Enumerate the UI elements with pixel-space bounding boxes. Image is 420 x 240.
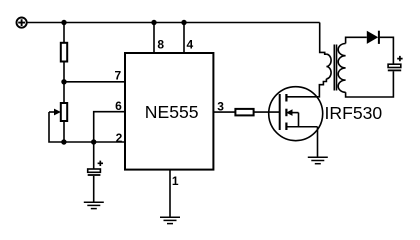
wire pin 4: [183, 23, 185, 54]
op-amp-box IC U1 NE555: [125, 53, 213, 170]
wire source to ground: [317, 127, 319, 157]
node junction on rail at pin 4: [181, 20, 186, 25]
svg-text:6: 6: [115, 99, 122, 113]
wire pin 7: [64, 81, 125, 83]
svg-text:8: 8: [157, 38, 164, 52]
diode D1: [367, 31, 379, 44]
node junction C1 / pin6 branch: [91, 139, 96, 144]
wire bulk to source: [298, 113, 300, 127]
potentiometer P1 body: [61, 103, 67, 121]
transistor Q1 gate bar: [279, 94, 281, 130]
wire wiper to bottom net: [49, 112, 64, 142]
ground (C1): [84, 202, 104, 208]
svg-text:7: 7: [115, 69, 122, 83]
ground (source): [308, 157, 328, 163]
wire bottom net to pin 2: [64, 141, 125, 143]
wire R1 bottom to pin7 node: [63, 62, 65, 82]
wire C2 to secondary bottom: [346, 71, 394, 97]
wire R2 to gate: [254, 111, 280, 113]
resistor R1: [61, 43, 67, 62]
ground (pin 1): [160, 217, 180, 223]
wire rail down to transformer primary: [320, 23, 327, 55]
svg-text:NE555: NE555: [145, 102, 199, 122]
capacitor C1 (polarized): [88, 161, 103, 175]
wire pin 6 branch: [94, 112, 125, 142]
transistor Q1 bulk arrow: [286, 109, 298, 116]
wire C1 top: [93, 142, 95, 169]
wire rail to R1 top: [63, 23, 65, 43]
transistor Q1 channel ticks: [285, 94, 287, 130]
transformer T1 primary winding: [326, 54, 331, 79]
wire pot bottom: [63, 121, 65, 142]
wire diode to C2: [379, 37, 394, 64]
transistor Q1 drain line: [286, 96, 318, 98]
wire top rail: [27, 22, 320, 24]
capacitor C2 (polarized): [388, 56, 403, 71]
wire secondary top to diode: [346, 37, 367, 43]
node junction on rail at pin 8: [151, 20, 156, 25]
transistor Q1 MOSFET body circle: [269, 87, 323, 141]
node junction on rail above R1: [61, 20, 66, 25]
wire pin 8: [153, 23, 155, 54]
wire C1 to ground: [93, 176, 95, 202]
wire pot top: [63, 82, 65, 103]
svg-text:1: 1: [172, 174, 179, 188]
potentiometer P1 wiper arrow: [49, 109, 61, 116]
transistor Q1 source line: [286, 126, 317, 128]
transformer T1 secondary winding: [338, 44, 345, 93]
terminal + (supply positive): [17, 18, 27, 28]
node junction pin7/pot: [61, 79, 66, 84]
resistor R2 (gate): [235, 109, 253, 116]
svg-text:2: 2: [116, 131, 123, 145]
transformer T1 core: [334, 45, 336, 91]
wire primary bottom to drain (staircase): [319, 79, 327, 97]
node junction pot bottom: [61, 139, 66, 144]
wire pin 1 to ground: [169, 170, 171, 217]
svg-text:4: 4: [187, 38, 194, 52]
svg-text:IRF530: IRF530: [325, 103, 383, 123]
wire pin 3 to R2: [213, 111, 235, 113]
